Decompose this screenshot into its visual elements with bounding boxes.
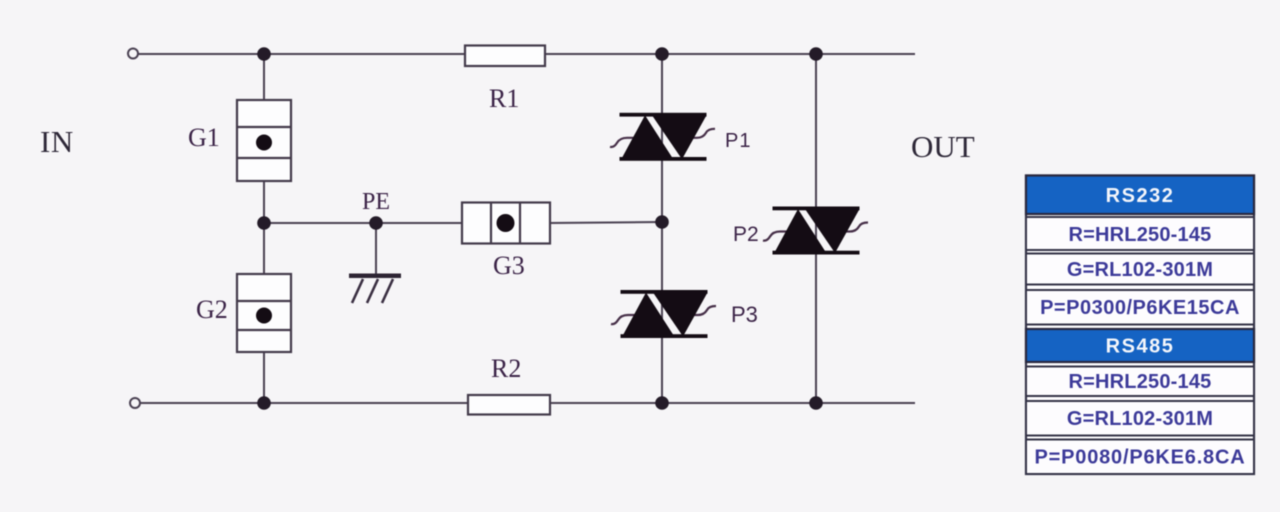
resistor R2 (468, 354, 550, 415)
wire middle horizontal PE to G3 (264, 222, 462, 224)
svg-text:RS485: RS485 (1106, 336, 1175, 358)
legend table RS232 / RS485 (1026, 176, 1254, 475)
svg-text:P=P0080/P6KE6.8CA: P=P0080/P6KE6.8CA (1035, 447, 1246, 469)
svg-text:PE: PE (362, 189, 390, 215)
terminal IN top (128, 49, 138, 59)
svg-text:G=RL102-301M: G=RL102-301M (1067, 408, 1213, 430)
wire G1 branch vertical (263, 54, 265, 223)
svg-text:IN: IN (40, 124, 74, 159)
svg-text:R2: R2 (491, 354, 521, 383)
svg-text:R=HRL250-145: R=HRL250-145 (1068, 224, 1211, 246)
wire top horizontal IN to OUT (138, 53, 915, 55)
gas discharge tube G3 (462, 203, 550, 281)
gas discharge tube G2 (196, 274, 291, 352)
terminal IN bottom (130, 398, 140, 408)
wire vertical P1 P3 (661, 54, 663, 403)
node junction dots (257, 47, 823, 410)
TVS diode P3 (611, 290, 758, 338)
svg-text:P=P0300/P6KE15CA: P=P0300/P6KE15CA (1040, 297, 1240, 319)
svg-text:P2: P2 (733, 223, 759, 246)
wire G2 branch vertical (263, 223, 265, 403)
TVS diode P2 (733, 207, 868, 255)
svg-text:G1: G1 (188, 123, 220, 152)
label OUT (911, 129, 975, 164)
wire vertical P2 (815, 54, 817, 403)
resistor R1 (465, 46, 545, 114)
gas discharge tube G1 (188, 100, 291, 181)
svg-text:P1: P1 (725, 130, 751, 152)
svg-text:R=HRL250-145: R=HRL250-145 (1068, 371, 1211, 393)
TVS diode P1 (610, 113, 751, 161)
wire G3 to node (550, 222, 662, 223)
svg-text:R1: R1 (489, 84, 519, 113)
label IN (40, 124, 74, 159)
svg-text:OUT: OUT (911, 129, 975, 164)
svg-text:P3: P3 (731, 302, 758, 327)
svg-text:G2: G2 (196, 295, 228, 324)
svg-text:RS232: RS232 (1106, 185, 1175, 207)
ground PE (349, 189, 401, 303)
wire PE drop (375, 223, 377, 275)
svg-text:G3: G3 (493, 251, 525, 280)
wire bottom horizontal (140, 402, 915, 404)
svg-text:G=RL102-301M: G=RL102-301M (1067, 259, 1213, 281)
